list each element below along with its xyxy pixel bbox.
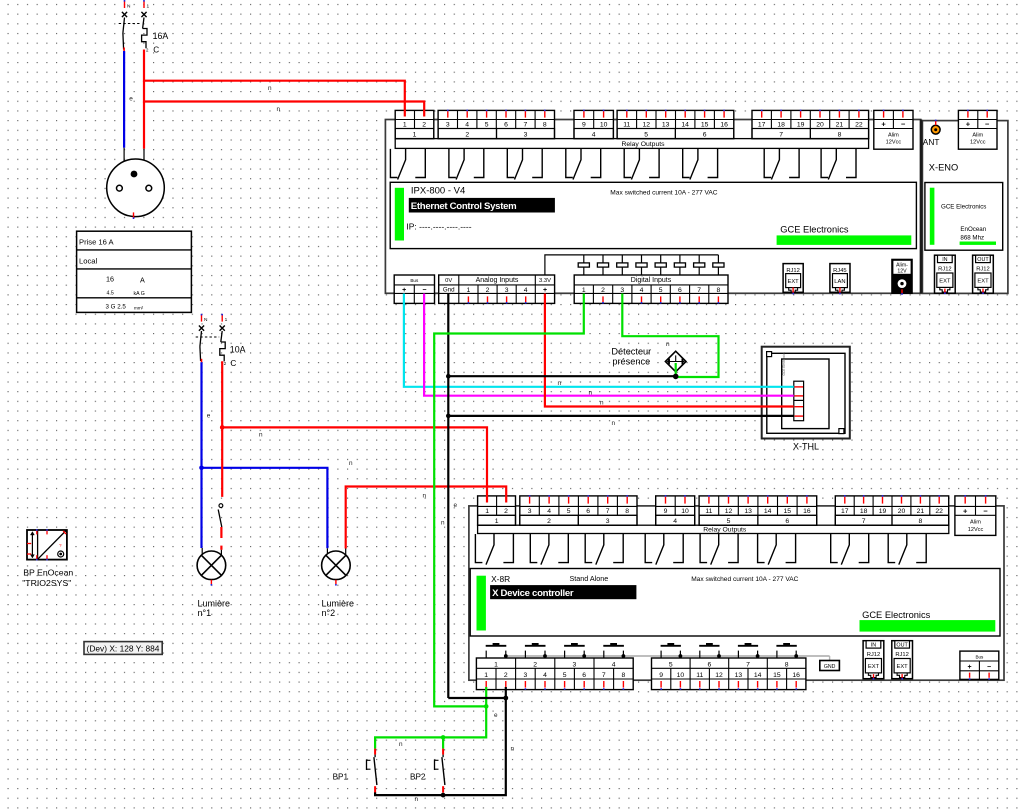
- svg-text:8: 8: [543, 121, 547, 128]
- X-8R green bar: [477, 576, 486, 631]
- X-ENO green underline bar: [960, 242, 996, 245]
- X-8R input push contact 6: [699, 645, 719, 647]
- 3.3V wire (red) to X-THL: [545, 294, 794, 407]
- svg-text:14: 14: [681, 121, 689, 128]
- svg-text:EXT: EXT: [977, 279, 989, 285]
- svg-text:16: 16: [720, 121, 728, 128]
- svg-text:kA G: kA G: [134, 291, 145, 297]
- svg-text:Analog Inputs: Analog Inputs: [476, 277, 519, 284]
- X-8R relay contact 5: [700, 534, 707, 563]
- svg-text:C: C: [153, 45, 159, 54]
- svg-text:6: 6: [582, 672, 586, 679]
- svg-text:8: 8: [717, 287, 721, 294]
- svg-text:10A: 10A: [230, 345, 246, 355]
- svg-text:−: −: [901, 120, 906, 129]
- ground branch junction to detector: [446, 374, 451, 379]
- svg-text:4: 4: [612, 661, 616, 668]
- svg-text:Prise 16 A: Prise 16 A: [79, 238, 115, 247]
- IPX-800 main body box U1: [390, 182, 916, 248]
- phase wire (red) breaker Q2 down: [221, 361, 223, 497]
- svg-text:5: 5: [669, 661, 673, 668]
- svg-text:(Dev) X: 128 Y: 884: (Dev) X: 128 Y: 884: [87, 643, 160, 653]
- X-THL board box: [782, 359, 829, 429]
- status tooltip box: [84, 642, 162, 655]
- svg-text:Ethernet Control System: Ethernet Control System: [411, 201, 517, 212]
- svg-text:11: 11: [623, 121, 630, 128]
- GCE Electronics green underline bar (IPX): [777, 235, 912, 245]
- svg-text:EnOcean: EnOcean: [960, 226, 986, 233]
- X-8R terminal block 17-22: [835, 496, 948, 525]
- svg-text:Max switched current 10A - 277: Max switched current 10A - 277 VAC: [691, 576, 798, 583]
- svg-text:"TRIO2SYS": "TRIO2SYS": [22, 578, 71, 588]
- svg-text:Local: Local: [79, 256, 97, 265]
- breaker Q1 phase wire (red) to IPX relay 1: [144, 50, 405, 117]
- circuit breaker Q1 16A 2P: [124, 1, 126, 8]
- svg-text:n: n: [268, 85, 272, 92]
- X-8R input rail junction 5: [679, 654, 683, 658]
- svg-text:1: 1: [495, 518, 499, 525]
- pull-up resistor digital input 7: [698, 255, 700, 263]
- svg-text:12: 12: [715, 672, 723, 679]
- svg-text:RJ45: RJ45: [833, 268, 847, 274]
- svg-text:16A: 16A: [153, 31, 169, 41]
- svg-text:e: e: [494, 712, 498, 719]
- svg-text:X-ENO: X-ENO: [929, 163, 958, 173]
- presence detector symbol: [665, 351, 686, 372]
- neutral wire (blue) to lamp 2: [202, 468, 328, 549]
- svg-text:GND: GND: [824, 664, 836, 670]
- svg-text:−: −: [987, 664, 991, 671]
- svg-text:12Vcc: 12Vcc: [970, 140, 986, 146]
- svg-text:2: 2: [486, 287, 490, 294]
- lamp Lumière n°1: [201, 548, 203, 554]
- X-8R relay contact 2: [530, 534, 537, 563]
- IPX analog inputs terminal block: [439, 275, 555, 303]
- svg-text:8: 8: [625, 508, 629, 515]
- ground wire (black) to detector: [448, 375, 675, 377]
- X-8R relay group 7 cell: [835, 515, 892, 525]
- svg-text:15: 15: [701, 121, 709, 128]
- svg-text:n: n: [441, 519, 445, 526]
- svg-text:e: e: [129, 96, 133, 103]
- svg-text:5: 5: [485, 121, 489, 128]
- svg-text:4: 4: [547, 508, 551, 515]
- X-THL corner square top-left: [767, 352, 772, 357]
- svg-text:2: 2: [547, 518, 551, 525]
- svg-text:13: 13: [662, 121, 670, 128]
- svg-text:Lumière: Lumière: [198, 598, 231, 608]
- X-8R input push contact 1: [486, 645, 507, 647]
- svg-text:EXT: EXT: [868, 664, 880, 670]
- X-THL corner square bottom-right: [839, 429, 844, 434]
- bus wire (cyan) to X-THL: [404, 294, 794, 387]
- neutral wire (blue) breaker Q2 to lamp 1: [200, 362, 202, 548]
- svg-text:20: 20: [816, 121, 824, 128]
- IPX RJ45 LAN connector: [830, 264, 850, 293]
- svg-text:4: 4: [673, 518, 677, 525]
- svg-text:ANT: ANT: [923, 137, 940, 147]
- svg-text:n: n: [349, 460, 353, 467]
- IPX relay contact 1: [390, 149, 397, 178]
- ground branch junction to X-THL: [446, 414, 451, 419]
- svg-text:GCE Electronics: GCE Electronics: [780, 225, 849, 235]
- X-8R input terminal block 9-16: [652, 658, 806, 690]
- socket info table: [77, 231, 192, 312]
- svg-text:7: 7: [746, 661, 750, 668]
- svg-text:X-THL: X-THL: [793, 441, 819, 451]
- svg-text:8: 8: [785, 661, 789, 668]
- phase wire (red) down to socket: [143, 102, 145, 149]
- breaker Q2 output terminal tick: [201, 359, 203, 362]
- svg-text:n: n: [399, 741, 403, 748]
- X-ENO OUT RJ12 EXT connector: [973, 255, 994, 293]
- svg-text:12: 12: [643, 121, 651, 128]
- IPX relay outputs band: [395, 139, 868, 149]
- relay contact K1 in lamp 1 circuit: [219, 504, 223, 508]
- svg-text:RJ12: RJ12: [786, 268, 800, 274]
- svg-text:12V: 12V: [897, 269, 907, 275]
- svg-text:e: e: [207, 412, 211, 419]
- svg-text:présence: présence: [612, 357, 650, 367]
- X-8R relay contact 6: [758, 534, 765, 563]
- svg-text:8: 8: [622, 672, 626, 679]
- X-8R relay group 4 cell: [656, 515, 695, 525]
- svg-text:4: 4: [592, 131, 596, 138]
- svg-text:IN: IN: [942, 257, 947, 263]
- pull-up resistor digital input 3: [621, 255, 623, 263]
- circuit breaker Q2 10A 2P: [201, 315, 203, 322]
- svg-text:Stand Alone: Stand Alone: [570, 574, 609, 583]
- svg-text:BP EnOcean: BP EnOcean: [23, 568, 73, 578]
- IPX digital inputs terminal block: [574, 275, 728, 303]
- svg-text:7: 7: [602, 672, 606, 679]
- svg-text:868 Mhz: 868 Mhz: [960, 235, 984, 242]
- X-8R relay group 5 cell: [699, 515, 758, 525]
- svg-text:8: 8: [838, 131, 842, 138]
- digital input 1 wire (green) to push buttons: [434, 294, 584, 707]
- svg-text:2: 2: [465, 131, 469, 138]
- X-8R input rail junction 7: [756, 654, 760, 658]
- svg-text:A: A: [140, 276, 145, 285]
- phase wire (red) to X-8R terminal 1: [222, 427, 487, 502]
- X-ENO inner body box: [925, 183, 1003, 251]
- X-THL inner frame: [767, 353, 845, 433]
- ground wire (black) vertical from IPX Gnd: [447, 294, 449, 699]
- svg-text:9: 9: [664, 508, 668, 515]
- svg-text:3: 3: [446, 121, 450, 128]
- X-8R relay group 8 cell: [892, 515, 949, 525]
- IPX-800 green bar: [395, 188, 404, 241]
- svg-text:2: 2: [504, 672, 508, 679]
- X-8R input ground rail: [506, 655, 830, 657]
- svg-text:15: 15: [784, 508, 792, 515]
- socket pin wires: [123, 148, 125, 162]
- X-ENO Alim 12Vcc terminal block: [958, 110, 997, 149]
- phase branch wire (red) to IPX relay 2: [144, 81, 424, 117]
- svg-text:7: 7: [862, 518, 866, 525]
- push button BP1: [374, 749, 376, 755]
- svg-text:14: 14: [754, 672, 762, 679]
- X-8R Bus terminal block: [960, 651, 999, 679]
- svg-text:18: 18: [777, 121, 785, 128]
- svg-text:17: 17: [758, 121, 766, 128]
- IPX relay contact 4: [566, 149, 573, 178]
- svg-text:n: n: [600, 400, 604, 407]
- X-8R terminal block 1-2: [478, 496, 516, 525]
- IPX terminal block 1-2: [395, 110, 434, 138]
- IPX terminal block 3-8: [438, 110, 554, 138]
- svg-text:10: 10: [677, 672, 685, 679]
- IPX relay group 3 cell: [497, 129, 555, 139]
- green wire junction at X-8R input 1: [484, 704, 489, 709]
- svg-text:1: 1: [225, 317, 228, 323]
- svg-text:GCE Electronics: GCE Electronics: [782, 352, 786, 376]
- socket Prise 16A symbol: [107, 159, 165, 217]
- svg-text:13: 13: [735, 672, 743, 679]
- IPX 3.3V pull-up feed line: [545, 255, 719, 275]
- svg-text:X Device controller: X Device controller: [492, 588, 574, 599]
- svg-text:11: 11: [696, 672, 703, 679]
- svg-text:IPX-800 - V4: IPX-800 - V4: [411, 186, 465, 197]
- svg-text:BP2: BP2: [410, 773, 426, 782]
- svg-text:7: 7: [606, 508, 610, 515]
- ground return wire (black) from X-8R input 2 to buttons: [375, 687, 506, 795]
- svg-text:16: 16: [792, 672, 800, 679]
- IPX relay group 5 cell: [617, 129, 675, 139]
- svg-text:+: +: [402, 287, 406, 294]
- IPX relay contact 3: [507, 149, 514, 178]
- svg-text:1: 1: [485, 508, 489, 515]
- X-8R input push contact 4: [603, 645, 624, 647]
- svg-text:LAN: LAN: [834, 279, 845, 285]
- svg-text:16: 16: [803, 508, 811, 515]
- X-8R OUT RJ12 EXT connector: [892, 641, 913, 679]
- svg-text:5: 5: [644, 131, 648, 138]
- X-8R terminal block 9-10: [656, 496, 695, 525]
- X-8R input push contact 5: [661, 645, 681, 647]
- svg-text:n: n: [558, 380, 562, 387]
- svg-text:IP: ----.----.----.----: IP: ----.----.----.----: [406, 221, 471, 231]
- svg-text:4: 4: [524, 287, 528, 294]
- junction BP2 bottom: [441, 793, 446, 798]
- svg-text:+: +: [966, 120, 971, 129]
- svg-text:18: 18: [860, 508, 868, 515]
- svg-text:15: 15: [773, 672, 781, 679]
- X-8R relay contact 4: [645, 534, 652, 563]
- svg-text:Relay Outputs: Relay Outputs: [621, 141, 665, 148]
- svg-text:5: 5: [563, 672, 567, 679]
- svg-text:13: 13: [744, 508, 752, 515]
- X-ENO antenna symbol ANT: [931, 125, 940, 134]
- X-8R module outline: [469, 506, 1004, 680]
- svg-text:10: 10: [600, 121, 608, 128]
- IPX relay group 8 cell: [810, 129, 868, 139]
- ground wire (black) IPX Gnd to input 2: [448, 697, 506, 699]
- X-8R input rail junction 2: [543, 654, 547, 658]
- svg-text:−: −: [985, 120, 990, 129]
- svg-text:−: −: [983, 506, 988, 515]
- svg-text:EXT: EXT: [896, 664, 908, 670]
- svg-text:12: 12: [725, 508, 733, 515]
- X-8R input terminal block 1-8: [476, 658, 633, 690]
- svg-text:Relay Outputs: Relay Outputs: [703, 527, 747, 534]
- X-8R relay group 6 cell: [758, 515, 817, 525]
- svg-text:1: 1: [147, 4, 150, 10]
- svg-text:5: 5: [727, 518, 731, 525]
- X-8R input rail junction 1: [504, 654, 508, 658]
- IPX relay group 2 cell: [438, 129, 496, 139]
- svg-text:3 G 2.5: 3 G 2.5: [106, 303, 127, 310]
- svg-text:19: 19: [879, 508, 887, 515]
- svg-text:+: +: [968, 664, 972, 671]
- svg-text:16: 16: [106, 275, 114, 284]
- svg-text:RJ12: RJ12: [976, 267, 990, 273]
- svg-text:12Vcc: 12Vcc: [886, 140, 902, 146]
- X-8R main body box U2: [470, 569, 1000, 637]
- svg-text:9: 9: [659, 672, 663, 679]
- X-8R input push contact 2: [525, 645, 546, 647]
- svg-text:Max switched current 10A - 277: Max switched current 10A - 277 VAC: [610, 190, 717, 197]
- X Device controller label: [490, 585, 636, 599]
- svg-text:X-8R: X-8R: [491, 574, 510, 584]
- ground wire junction at X-8R input 2: [503, 696, 508, 701]
- svg-text:4.5: 4.5: [107, 290, 114, 296]
- X-ENO green bar: [930, 188, 935, 245]
- svg-text:Alim: Alim: [970, 519, 981, 525]
- pull-up resistor digital input 4: [641, 255, 643, 263]
- svg-text:+: +: [543, 287, 547, 294]
- X-ENO module outline: [922, 121, 1008, 294]
- svg-text:OUT: OUT: [896, 643, 908, 649]
- breaker Q1 neutral wire (blue): [123, 51, 125, 148]
- svg-text:N: N: [127, 4, 131, 10]
- svg-text:7: 7: [524, 121, 528, 128]
- X-8R input push contact 3: [564, 645, 585, 647]
- svg-text:N: N: [204, 317, 208, 323]
- svg-text:6: 6: [703, 131, 707, 138]
- X-8R relay contact 8: [888, 534, 895, 563]
- svg-text:5: 5: [659, 287, 663, 294]
- svg-text:1: 1: [403, 121, 407, 128]
- IPX Alim 12V power jack: [892, 259, 912, 293]
- svg-text:n: n: [666, 341, 670, 348]
- svg-text:14: 14: [764, 508, 772, 515]
- svg-text:22: 22: [855, 121, 863, 128]
- svg-text:n: n: [415, 796, 419, 803]
- X-8R IN RJ12 EXT connector: [863, 641, 884, 679]
- IPX terminal block 11-16: [617, 110, 734, 138]
- phase branch junction to X-8R relay 1: [220, 425, 225, 430]
- X-8R input rail junction 6: [717, 654, 721, 658]
- svg-text:6: 6: [504, 121, 508, 128]
- svg-text:8: 8: [919, 518, 923, 525]
- X-8R relay outputs band: [478, 525, 949, 533]
- X-8R terminal block 11-16: [699, 496, 817, 525]
- X-THL terminal connector: [794, 381, 804, 421]
- green wire junction to BP2: [441, 735, 446, 740]
- svg-text:Lumière: Lumière: [322, 598, 355, 608]
- GCE Electronics green underline bar (X-8R): [860, 620, 996, 632]
- IPX relay contact 7: [764, 149, 771, 178]
- IPX relay contact 5: [624, 149, 631, 178]
- svg-text:11: 11: [705, 508, 712, 515]
- svg-text:6: 6: [785, 518, 789, 525]
- IPX Alim 12Vcc terminal block: [874, 110, 913, 149]
- svg-text:10: 10: [681, 508, 689, 515]
- bus wire (magenta) to X-THL: [424, 294, 794, 396]
- svg-text:GCE Electronics: GCE Electronics: [941, 203, 986, 210]
- IPX relay contact 8: [821, 149, 828, 178]
- svg-text:C: C: [230, 359, 236, 368]
- X-8R relay contact 1: [475, 534, 482, 563]
- svg-text:21: 21: [836, 121, 844, 128]
- svg-text:Gnd: Gnd: [443, 287, 455, 294]
- pull-up resistor digital input 2: [602, 255, 604, 263]
- svg-text:n°2: n°2: [322, 608, 336, 618]
- IPX terminal block 17-22: [752, 110, 869, 138]
- svg-text:1: 1: [413, 131, 417, 138]
- svg-text:1: 1: [582, 287, 586, 294]
- svg-text:3: 3: [573, 661, 577, 668]
- svg-text:Alim: Alim: [888, 133, 899, 139]
- X-8R relay group 1 cell: [478, 515, 516, 525]
- green wire down to push buttons: [375, 706, 486, 748]
- IPX relay group 7 cell: [752, 129, 810, 139]
- X-8R input rail junction 3: [582, 654, 586, 658]
- IPX relay contact 6: [683, 149, 690, 178]
- svg-text:Alim: Alim: [972, 133, 983, 139]
- svg-text:n: n: [612, 420, 616, 427]
- digital input 3 wire (green) to presence detector: [622, 294, 718, 378]
- svg-text:3: 3: [528, 508, 532, 515]
- pull-up resistor digital input 5: [660, 255, 662, 263]
- IPX Bus terminal block: [394, 275, 434, 303]
- svg-text:2: 2: [504, 508, 508, 515]
- switched phase wire (red) X-8R terminal 2 to lamp 2: [346, 487, 507, 549]
- svg-text:3: 3: [620, 287, 624, 294]
- pull-up resistor digital input 6: [679, 255, 681, 263]
- svg-text:7: 7: [779, 131, 783, 138]
- lamp Lumière n°2: [326, 548, 328, 554]
- svg-text:2: 2: [601, 287, 605, 294]
- svg-text:4: 4: [465, 121, 469, 128]
- svg-text:9: 9: [582, 121, 586, 128]
- svg-text:n: n: [423, 493, 427, 500]
- X-8R input push contact 8: [776, 645, 796, 647]
- ground wire (black) to X-THL: [448, 415, 794, 417]
- X-ENO IN RJ12 EXT connector: [935, 255, 956, 293]
- svg-text:IN: IN: [871, 643, 876, 649]
- X-8R Alim 12Vcc terminal block: [955, 496, 996, 536]
- svg-text:Bus: Bus: [410, 278, 419, 283]
- svg-text:GCE Electronics: GCE Electronics: [862, 610, 931, 620]
- svg-text:e: e: [454, 502, 458, 509]
- svg-text:22: 22: [935, 508, 943, 515]
- svg-text:Détecteur: Détecteur: [611, 347, 651, 357]
- svg-text:0V: 0V: [445, 278, 452, 284]
- IPX-800 module outline: [385, 120, 920, 294]
- IPX relay contact 2: [449, 149, 456, 178]
- svg-text:OUT: OUT: [977, 257, 989, 263]
- svg-text:1: 1: [484, 672, 488, 679]
- svg-text:12Vcc: 12Vcc: [968, 527, 984, 533]
- push button BP2: [442, 749, 444, 755]
- svg-text:BP1: BP1: [333, 773, 349, 782]
- BP EnOcean TRIO2SYS symbol: [27, 530, 67, 560]
- svg-text:n: n: [277, 106, 281, 113]
- IPX relay group 1 cell: [395, 129, 434, 139]
- svg-text:5: 5: [567, 508, 571, 515]
